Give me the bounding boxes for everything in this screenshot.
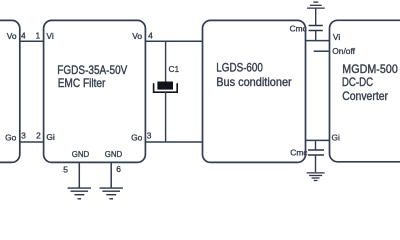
- On/off stub wire: [314, 50, 330, 52]
- svg-text:Vo: Vo: [132, 31, 142, 41]
- svg-text:Vo: Vo: [7, 31, 17, 41]
- capacitor Cmc (bottom) plates: [308, 149, 324, 151]
- wire: GND pin 5 lead: [78, 162, 80, 187]
- svg-text:3: 3: [21, 131, 26, 141]
- capacitor C1: cup electrode: [154, 83, 178, 92]
- svg-text:Vi: Vi: [333, 32, 340, 42]
- svg-text:Gi: Gi: [46, 132, 55, 142]
- left box (partially cut off at left edge): [0, 20, 20, 162]
- svg-text:5: 5: [63, 164, 68, 174]
- wire: C1 top lead: [165, 41, 167, 81]
- capacitor Cmc (top) plates: [309, 25, 323, 27]
- svg-text:Bus conditioner: Bus conditioner: [216, 75, 292, 89]
- EMC filter box outline: [44, 20, 146, 162]
- wire: EMC Vo to LGDS (top): [145, 40, 202, 42]
- wire: LGDS to MGDM Vi (top): [306, 40, 330, 42]
- wire: top Cmc ground lead: [315, 8, 317, 25]
- svg-text:4: 4: [21, 30, 26, 40]
- svg-text:Cmc: Cmc: [290, 147, 307, 157]
- svg-text:Gi: Gi: [332, 133, 341, 143]
- svg-text:EMC Filter: EMC Filter: [58, 76, 106, 90]
- svg-text:Converter: Converter: [342, 89, 388, 103]
- ground (top right, pointing up): [307, 2, 325, 8]
- wire: left box Vo to EMC Vi (top): [20, 40, 44, 42]
- MGDM-500 box outline (cut off at right edge): [330, 20, 400, 162]
- ground (bottom right): [307, 173, 325, 181]
- wire: bottom Cmc to ground: [315, 155, 317, 172]
- wire: top Cmc to top wire: [315, 31, 317, 41]
- svg-text:MGDM-500: MGDM-500: [342, 62, 398, 76]
- svg-text:Cmc: Cmc: [290, 23, 307, 33]
- svg-text:DC-DC: DC-DC: [342, 75, 374, 89]
- svg-text:Go: Go: [5, 133, 17, 143]
- svg-text:LGDS-600: LGDS-600: [216, 61, 263, 75]
- svg-text:Go: Go: [131, 133, 143, 143]
- svg-text:GND: GND: [105, 149, 123, 159]
- capacitor C1 (polarized): filled plate: [157, 82, 173, 90]
- svg-text:On/off: On/off: [332, 46, 355, 56]
- svg-text:1: 1: [35, 30, 40, 40]
- svg-text:6: 6: [116, 164, 121, 174]
- svg-text:2: 2: [36, 131, 41, 141]
- wire: EMC Go to LGDS (bottom): [145, 141, 202, 143]
- ground (under pin 6): [100, 188, 123, 199]
- wire: left box Go to EMC Gi (bottom): [20, 141, 44, 143]
- svg-text:C1: C1: [169, 64, 180, 74]
- wire: GND pin 6 lead: [110, 162, 112, 187]
- svg-text:4: 4: [148, 30, 153, 40]
- wire: bottom Cmc tap: [315, 140, 317, 150]
- ground (under pin 5): [68, 188, 91, 199]
- svg-text:Vi: Vi: [46, 31, 53, 41]
- svg-text:3: 3: [147, 131, 152, 141]
- svg-text:GND: GND: [72, 149, 90, 159]
- LGDS-600 box outline: [203, 20, 306, 162]
- wire: LGDS to MGDM Gi (bottom): [306, 139, 330, 141]
- wire: C1 bottom lead: [165, 92, 167, 142]
